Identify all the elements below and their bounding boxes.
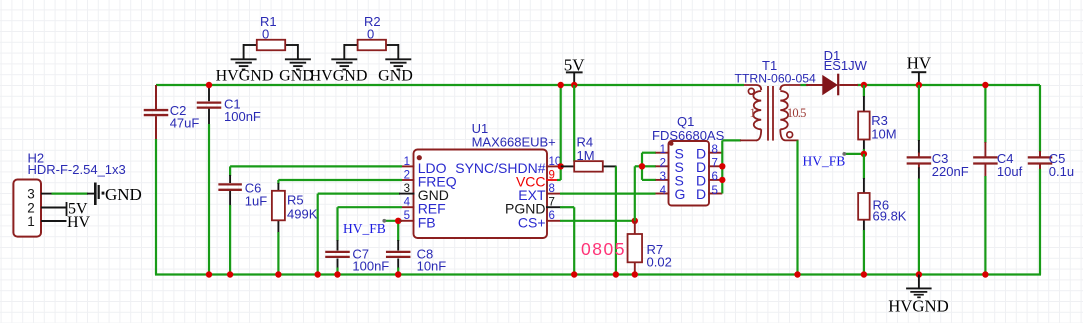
U1 right pin stubs (546, 165, 561, 167)
ground earth HVGND left of R1 (231, 58, 257, 60)
power ground HVGND symbol (918, 275, 920, 289)
junction dot CS+ node (632, 218, 638, 224)
svg-text:8: 8 (712, 144, 718, 156)
junction dot drain row6 (719, 177, 725, 183)
wire transformer secondary return (796, 140, 798, 274)
connector H2 HDR-F-2.54_1x3 (13, 180, 41, 237)
wire secondary to diode (801, 84, 809, 86)
svg-text:10nF: 10nF (417, 258, 447, 273)
capacitor C8 (397, 221, 399, 241)
wire CS+ to R7 node (560, 220, 635, 222)
svg-text:5V: 5V (564, 56, 586, 75)
ground earth GND right of R1 (285, 58, 311, 60)
svg-text:0805: 0805 (581, 239, 626, 259)
svg-text:100nF: 100nF (224, 109, 261, 124)
pin 3 wire of H2 to GND (41, 193, 52, 195)
pin 1 wire of H2 net HV (41, 220, 67, 222)
junction dot R7 bottom (632, 271, 638, 277)
ground earth GND right of R2 (385, 58, 411, 60)
capacitor C1 (208, 85, 210, 101)
resistor R7 (634, 221, 636, 235)
junction dot diode output (861, 82, 867, 88)
pin 2 wire of H2 net 5V (41, 207, 67, 209)
junction dot R4 bottom (613, 271, 619, 277)
op-amp U1 MAX668EUB+ body (414, 150, 548, 239)
junction dot drain row7 (719, 163, 725, 169)
Q1 right pin stubs (708, 152, 722, 154)
wire HV_FB tap (844, 153, 864, 155)
junction dot R5 bottom (275, 271, 281, 277)
capacitor C5 (1028, 156, 1053, 158)
capacitor C3 (918, 85, 920, 141)
svg-text:HVGND: HVGND (888, 297, 949, 316)
svg-text:1: 1 (404, 156, 410, 168)
svg-text:0: 0 (262, 27, 269, 42)
U1 left pin stubs (402, 165, 415, 167)
svg-text:1: 1 (750, 106, 756, 120)
wire Q1 drain bus to transformer (721, 140, 723, 193)
svg-text:4: 4 (404, 197, 411, 209)
junction dot C1 bottom (206, 271, 212, 277)
junction dot GND pin3 bottom (315, 271, 321, 277)
svg-text:3: 3 (404, 183, 410, 195)
wire HV top rail (857, 84, 1040, 86)
svg-text:1M: 1M (577, 148, 595, 163)
svg-text:MAX668EUB+: MAX668EUB+ (472, 135, 556, 150)
svg-text:47uF: 47uF (170, 116, 200, 131)
diode D1 ES1JW (806, 84, 824, 86)
ground earth HVGND left of R2 (331, 58, 357, 60)
svg-text:R5: R5 (287, 193, 304, 208)
svg-text:HVGND: HVGND (216, 68, 274, 85)
svg-text:100nF: 100nF (352, 258, 389, 273)
junction dot PGND bottom (571, 271, 577, 277)
wire R4 right down to ground rail (615, 166, 617, 274)
junction dot C7 bottom (334, 271, 340, 277)
junction dot C8 bottom (395, 271, 401, 277)
junction dot C4 top (982, 82, 988, 88)
wire Q1 source loop (642, 152, 656, 154)
junction dot SYNC node (558, 163, 564, 169)
capacitor C6 (229, 166, 231, 176)
svg-text:1: 1 (660, 144, 666, 156)
svg-text:TTRN-060-054: TTRN-060-054 (735, 72, 816, 86)
svg-text:6: 6 (712, 171, 718, 183)
svg-text:HV_FB: HV_FB (343, 221, 386, 236)
resistor R4 (561, 165, 575, 167)
junction dot R3 R6 node (861, 151, 867, 157)
svg-text:GND: GND (105, 185, 142, 204)
svg-text:69.8K: 69.8K (873, 209, 907, 224)
svg-text:HV: HV (67, 214, 91, 231)
svg-text:0.02: 0.02 (647, 255, 672, 270)
svg-text:FDS6680AS: FDS6680AS (652, 128, 725, 143)
capacitor C2 (144, 109, 169, 111)
capacitor C4 (984, 85, 986, 143)
svg-text:ES1JW: ES1JW (824, 58, 868, 73)
svg-text:2: 2 (404, 169, 410, 181)
capacitor C7 (336, 207, 338, 241)
svg-text:HV_FB: HV_FB (803, 154, 846, 169)
svg-text:7: 7 (712, 158, 718, 170)
svg-text:499K: 499K (287, 207, 318, 222)
wire 5V port down to R4 (573, 85, 575, 162)
svg-text:10M: 10M (871, 127, 896, 142)
wire right branch C5 (1039, 85, 1041, 152)
svg-text:G: G (675, 186, 686, 202)
resistor R5 (277, 180, 279, 184)
junction dot FB node (395, 218, 401, 224)
resistor R6 (863, 154, 865, 179)
svg-text:3: 3 (660, 171, 666, 183)
wire REF pin4 to C7 (338, 206, 403, 208)
svg-text:HVGND: HVGND (310, 68, 368, 85)
power ground GND bar symbol (94, 183, 97, 206)
wire EXT to Q1 gate (560, 193, 656, 195)
transistor Q1 FDS6680AS body (669, 141, 710, 206)
svg-text:0.1u: 0.1u (1049, 164, 1074, 179)
svg-text:HV: HV (907, 53, 932, 72)
svg-text:5: 5 (712, 185, 718, 197)
junction dot C3 bottom (916, 271, 922, 277)
power port HV (911, 71, 926, 73)
svg-text:HDR-F-2.54_1x3: HDR-F-2.54_1x3 (28, 162, 126, 177)
svg-text:4: 4 (660, 185, 667, 197)
wire left branch C2 (155, 85, 157, 109)
power port 5V (566, 71, 583, 73)
transformer T1 TTRN-060-054 (740, 139, 757, 141)
junction dot 5V rail B (571, 82, 577, 88)
junction dot R6 bottom (861, 271, 867, 277)
junction dot C1 top (206, 82, 212, 88)
resistor R2 (344, 44, 358, 46)
junction dot Q1 source (639, 163, 645, 169)
wire LDO pin1 to C6 (230, 165, 402, 167)
svg-text:0: 0 (367, 27, 374, 42)
junction dot secondary return bottom (794, 271, 800, 277)
svg-text:GND: GND (378, 68, 413, 85)
wire FB net HV_FB stub (384, 220, 402, 222)
svg-text:2: 2 (660, 158, 666, 170)
wire GND pin3 down (318, 193, 400, 195)
junction dot C4 bottom (982, 271, 988, 277)
wire 5V to VCC (560, 85, 562, 180)
wire PGND down (560, 206, 574, 208)
svg-text:10.5: 10.5 (787, 106, 806, 120)
svg-text:5: 5 (404, 210, 410, 222)
svg-text:220nF: 220nF (932, 164, 969, 179)
svg-text:1uF: 1uF (245, 194, 267, 209)
svg-text:3: 3 (27, 187, 35, 202)
wire FREQ pin2 to R5 (278, 179, 402, 181)
svg-text:1: 1 (27, 214, 35, 229)
wire 5V top rail (156, 84, 744, 86)
svg-text:D: D (696, 186, 706, 202)
wire bottom ground rail (155, 273, 1041, 275)
svg-text:CS+: CS+ (518, 214, 546, 230)
junction dot HV rail (916, 82, 922, 88)
svg-text:Q1: Q1 (677, 114, 694, 129)
svg-text:FB: FB (418, 214, 436, 230)
junction dot 5V rail A (558, 82, 564, 88)
Q1 left pin stubs (656, 152, 670, 154)
resistor R1 (244, 44, 257, 46)
junction dot C6 bottom (227, 271, 233, 277)
svg-text:10uf: 10uf (997, 164, 1023, 179)
resistor R3 (863, 85, 865, 97)
